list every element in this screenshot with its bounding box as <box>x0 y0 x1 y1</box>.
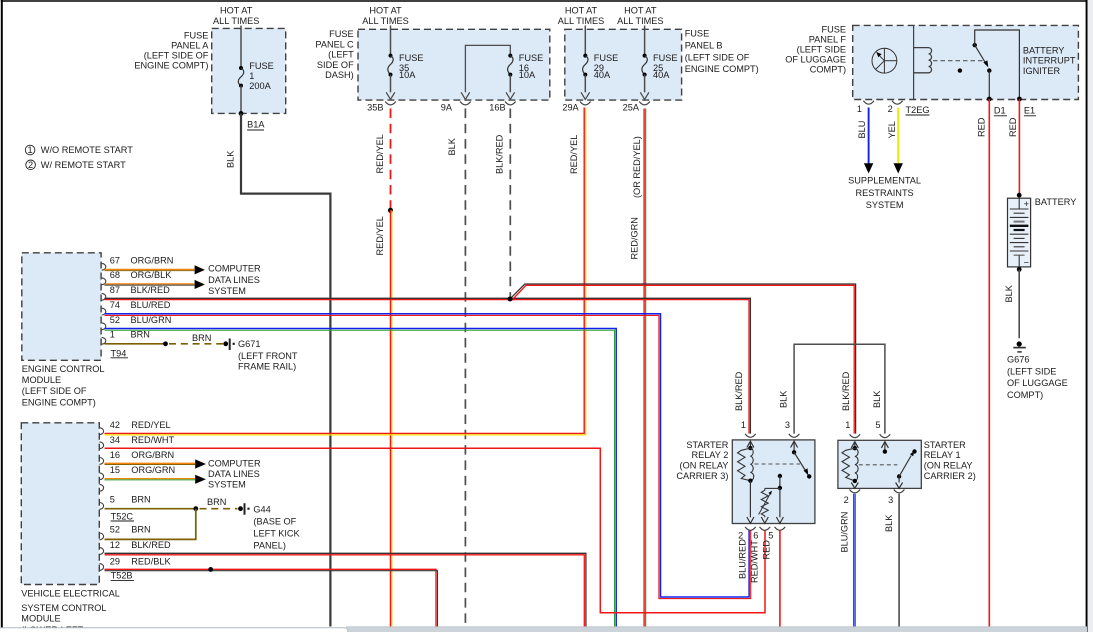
relay 2 bottom connectors <box>745 527 756 530</box>
svg-text:RED/BLK: RED/BLK <box>131 556 171 566</box>
contact dot <box>958 68 962 72</box>
svg-text:B1A: B1A <box>247 120 265 130</box>
svg-text:SYSTEM: SYSTEM <box>208 286 246 296</box>
svg-text:1: 1 <box>845 420 850 430</box>
node D1 dot <box>987 97 992 102</box>
svg-text:FUSE: FUSE <box>184 31 209 41</box>
svg-text:BLU/GRN: BLU/GRN <box>840 512 850 553</box>
svg-text:RED: RED <box>762 540 772 560</box>
svg-text:FUSE: FUSE <box>249 61 274 71</box>
svg-text:29A: 29A <box>562 103 579 113</box>
svg-text:BRN: BRN <box>207 497 226 507</box>
wire BLK from B1A <box>241 113 330 626</box>
junction dot 16B/87 <box>508 297 513 302</box>
fuse 1 200A <box>239 66 243 70</box>
node B1A dot <box>239 111 244 116</box>
svg-text:DATA LINES: DATA LINES <box>208 275 260 285</box>
VESCM pin arcs <box>99 428 103 571</box>
svg-text:2: 2 <box>28 160 33 170</box>
svg-text:HOT AT: HOT AT <box>369 6 402 16</box>
wire ORG/BRN pin 67 <box>105 268 195 270</box>
svg-text:BLK/RED: BLK/RED <box>841 371 851 411</box>
svg-text:BRN: BRN <box>192 333 211 343</box>
svg-text:RED: RED <box>977 117 987 137</box>
svg-text:+: + <box>1024 199 1029 209</box>
wire RED/GRN 25A <box>643 109 645 627</box>
svg-text:9A: 9A <box>441 103 453 113</box>
svg-text:BLK/RED: BLK/RED <box>734 371 744 411</box>
svg-text:IGNITER: IGNITER <box>1023 66 1061 76</box>
svg-text:(LEFT SIDE OF: (LEFT SIDE OF <box>22 386 87 396</box>
svg-text:OF LUGGAGE: OF LUGGAGE <box>1007 378 1068 388</box>
wire hot feed to fuse 29 <box>584 26 586 56</box>
svg-text:RED/GRN: RED/GRN <box>630 217 640 259</box>
svg-text:SYSTEM: SYSTEM <box>866 200 904 210</box>
svg-text:3: 3 <box>888 495 893 505</box>
relay 1 switch <box>897 474 901 478</box>
svg-text:(LEFT SIDE: (LEFT SIDE <box>1007 366 1056 376</box>
fuse panel C box <box>358 29 550 100</box>
svg-text:FUSE: FUSE <box>594 53 619 63</box>
svg-text:COMPT): COMPT) <box>1007 390 1043 400</box>
svg-text:1: 1 <box>249 71 254 81</box>
fuse panel A box <box>212 28 286 113</box>
wire BLU/GRN relay 1 pin 2 <box>853 494 855 627</box>
relay 2 coil resistor <box>738 448 751 481</box>
wire BRN pin 5 <box>105 508 196 510</box>
svg-text:PANEL F: PANEL F <box>809 35 847 45</box>
svg-text:G671: G671 <box>238 339 260 349</box>
svg-text:10A: 10A <box>519 70 536 80</box>
relay 1 dashed link <box>859 464 898 466</box>
svg-text:52: 52 <box>110 525 120 535</box>
wire BLU/RED pin 74 to relay 2 pin 2 <box>105 314 750 597</box>
fuse 29 40A <box>583 54 587 58</box>
relay 1 top connectors <box>850 434 861 437</box>
fuse 16 10A <box>508 54 512 58</box>
svg-text:T52C: T52C <box>111 511 134 521</box>
wire ORG/BLK pin 68 <box>105 283 195 285</box>
relay 1 pin 5 entry <box>881 442 888 448</box>
svg-text:FUSE: FUSE <box>399 53 424 63</box>
svg-text:MODULE: MODULE <box>21 614 60 624</box>
svg-text:COMPT): COMPT) <box>810 65 846 75</box>
svg-text:29: 29 <box>110 556 120 566</box>
svg-text:RED: RED <box>1008 117 1018 137</box>
svg-text:1: 1 <box>741 420 746 430</box>
wire RED from D1 <box>988 99 990 627</box>
svg-text:FUSE: FUSE <box>821 25 846 35</box>
igniter divider <box>913 25 915 99</box>
igniter switch <box>973 43 977 47</box>
relay 2 pin 5 branch <box>778 474 782 478</box>
svg-text:PANEL C: PANEL C <box>315 39 354 49</box>
svg-text:BLK: BLK <box>447 137 457 155</box>
svg-text:ENGINE COMPT): ENGINE COMPT) <box>685 64 759 74</box>
svg-text:2: 2 <box>844 495 849 505</box>
svg-text:RED/YEL: RED/YEL <box>375 216 385 255</box>
svg-text:COMPUTER: COMPUTER <box>208 458 261 468</box>
fuse panel F box <box>853 25 1079 99</box>
wire BLU to SRS <box>868 108 870 165</box>
svg-text:HOT AT: HOT AT <box>565 6 598 16</box>
svg-text:W/ REMOTE START: W/ REMOTE START <box>41 160 126 170</box>
svg-text:PANEL A: PANEL A <box>171 41 209 51</box>
wire hot feed into panel A <box>240 26 242 69</box>
svg-text:BLK/RED: BLK/RED <box>495 134 505 174</box>
connector 9A <box>460 102 471 105</box>
svg-text:ALL TIMES: ALL TIMES <box>362 16 408 26</box>
wire BRN pin 52 <box>105 509 196 540</box>
svg-text:(LEFT SIDE OF: (LEFT SIDE OF <box>144 51 209 61</box>
svg-text:15: 15 <box>110 465 120 475</box>
svg-text:68: 68 <box>110 270 120 280</box>
legend note 2 circle <box>26 160 36 170</box>
ground G671 <box>229 339 231 351</box>
svg-text:BLU/GRN: BLU/GRN <box>131 315 172 325</box>
svg-text:E1: E1 <box>1024 106 1035 116</box>
white overlay panel <box>0 628 348 632</box>
svg-text:CARRIER 2): CARRIER 2) <box>924 471 976 481</box>
svg-text:COMPUTER: COMPUTER <box>208 264 261 274</box>
svg-text:12: 12 <box>110 540 120 550</box>
svg-text:RED/WHT: RED/WHT <box>750 540 760 583</box>
junction dot on pin 29 wire <box>208 567 213 572</box>
svg-text:BLU/RED: BLU/RED <box>738 539 748 579</box>
fuse 25 40A <box>643 54 647 58</box>
wire BLK relay 1 pin 3 <box>898 494 900 627</box>
connector pin 2 <box>892 101 903 104</box>
svg-text:FUSE: FUSE <box>653 53 678 63</box>
svg-text:HOT AT: HOT AT <box>624 6 657 16</box>
svg-text:87: 87 <box>110 285 120 295</box>
svg-text:T52B: T52B <box>111 571 133 581</box>
svg-text:25A: 25A <box>623 103 640 113</box>
svg-text:FUSE: FUSE <box>519 53 544 63</box>
wire ORG/GRN pin 15 <box>105 478 196 480</box>
battery plates <box>1010 208 1029 210</box>
wire hot feed to fuse 25 <box>644 26 646 56</box>
svg-text:T2EG: T2EG <box>906 105 930 115</box>
svg-text:(ON RELAY: (ON RELAY <box>680 461 729 471</box>
svg-text:BLK/RED: BLK/RED <box>131 285 171 295</box>
svg-text:(BASE OF: (BASE OF <box>253 516 296 526</box>
svg-text:BLK: BLK <box>884 514 894 532</box>
svg-text:2: 2 <box>738 531 743 541</box>
page border right <box>1086 0 1088 632</box>
starter relay 1 box <box>838 440 921 488</box>
svg-text:RED/YEL: RED/YEL <box>569 135 579 174</box>
svg-text:(LEFT: (LEFT <box>328 50 354 60</box>
svg-text:ALL TIMES: ALL TIMES <box>617 16 663 26</box>
wire RED relay 2 pin 5 <box>779 530 781 626</box>
svg-text:BLU/RED: BLU/RED <box>131 300 171 310</box>
battery top dot <box>1017 193 1022 198</box>
relay 2 top connectors <box>745 434 756 437</box>
svg-text:6: 6 <box>753 531 758 541</box>
svg-text:DATA LINES: DATA LINES <box>208 469 260 479</box>
svg-text:5: 5 <box>768 531 773 541</box>
svg-text:D1: D1 <box>994 106 1006 116</box>
wire hot feed into panel C <box>390 26 392 56</box>
relay 2 coil <box>750 448 753 481</box>
svg-text:PANEL): PANEL) <box>253 540 286 550</box>
battery box <box>1008 198 1031 267</box>
wire BLK/RED pin 12 <box>105 555 585 627</box>
wire BLK/RED 16B dashed <box>509 109 511 297</box>
svg-text:BRN: BRN <box>131 495 150 505</box>
ECM pin arcs <box>102 263 106 344</box>
svg-text:74: 74 <box>110 300 120 310</box>
svg-text:YEL: YEL <box>887 121 897 138</box>
svg-text:RELAY 1: RELAY 1 <box>924 450 961 460</box>
relay 1 coil <box>855 448 858 481</box>
svg-text:OF LUGGAGE: OF LUGGAGE <box>785 54 846 64</box>
ground G676 <box>1017 341 1022 346</box>
svg-text:G44: G44 <box>253 504 270 514</box>
svg-text:RED/WHT: RED/WHT <box>131 435 174 445</box>
wire BLK/RED branch to relay 1 pin 1 <box>510 284 856 434</box>
svg-text:RED/YEL: RED/YEL <box>131 420 170 430</box>
svg-text:SUPPLEMENTAL: SUPPLEMENTAL <box>848 175 921 185</box>
relay 2 pin 1 entry <box>747 441 754 447</box>
svg-text:BLK: BLK <box>1004 284 1014 302</box>
connector 35B <box>385 102 396 105</box>
svg-text:SYSTEM: SYSTEM <box>208 480 246 490</box>
wire BLU/GRN pin 52 <box>105 329 617 627</box>
svg-text:67: 67 <box>110 256 120 266</box>
svg-text:T94: T94 <box>111 348 127 358</box>
svg-text:(ON RELAY: (ON RELAY <box>924 461 973 471</box>
svg-text:LEFT KICK: LEFT KICK <box>253 528 300 538</box>
connector pin 1 <box>863 101 874 104</box>
battery bottom dot <box>1017 267 1022 272</box>
wire RED/YEL 35B solid <box>390 210 392 626</box>
svg-text:BLK: BLK <box>226 150 236 168</box>
svg-text:3: 3 <box>785 420 790 430</box>
svg-text:BATTERY: BATTERY <box>1023 45 1065 55</box>
svg-text:ALL TIMES: ALL TIMES <box>213 16 259 26</box>
svg-text:CARRIER 3): CARRIER 3) <box>676 471 728 481</box>
fuse 35 10A <box>389 54 393 58</box>
svg-text:BLK: BLK <box>779 390 789 408</box>
svg-text:ENGINE COMPT): ENGINE COMPT) <box>134 61 208 71</box>
wire RED/BLK pin 29 <box>105 569 437 626</box>
svg-text:−: − <box>1024 258 1029 268</box>
svg-text:SIDE OF: SIDE OF <box>317 60 354 70</box>
svg-text:RELAY 2: RELAY 2 <box>691 450 728 460</box>
svg-text:G676: G676 <box>1007 355 1029 365</box>
svg-text:34: 34 <box>110 435 120 445</box>
svg-text:ORG/BRN: ORG/BRN <box>131 450 174 460</box>
svg-text:40A: 40A <box>594 70 611 80</box>
svg-text:FUSE: FUSE <box>329 29 354 39</box>
svg-text:(LEFT FRONT: (LEFT FRONT <box>238 351 298 361</box>
svg-text:FUSE: FUSE <box>685 29 710 39</box>
svg-text:5: 5 <box>110 495 115 505</box>
svg-text:BLK/RED: BLK/RED <box>131 540 171 550</box>
svg-text:BLK: BLK <box>872 390 882 408</box>
svg-text:MODULE: MODULE <box>22 375 61 385</box>
wire BLK/RED pin 87 to relay 2 pin 1 <box>105 298 751 433</box>
relay 1 coil resistor <box>842 448 855 481</box>
connector 16B <box>505 102 516 105</box>
svg-text:35B: 35B <box>367 103 383 113</box>
svg-text:DASH): DASH) <box>325 70 354 80</box>
svg-text:2: 2 <box>888 104 893 114</box>
relay 1 pin 1 entry <box>851 442 858 448</box>
svg-text:52: 52 <box>110 315 120 325</box>
svg-text:ALL TIMES: ALL TIMES <box>558 16 604 26</box>
relay 2 varistor <box>765 487 780 489</box>
svg-text:HOT AT: HOT AT <box>220 6 253 16</box>
igniter squib symbol <box>872 48 897 73</box>
svg-text:16: 16 <box>110 450 120 460</box>
svg-text:BATTERY: BATTERY <box>1035 197 1077 207</box>
vehicle electrical system control module box <box>21 423 99 585</box>
connector 25A <box>639 102 650 105</box>
wire BLK bridge relay2 pin3 to relay1 pin5 <box>794 344 885 433</box>
relay 1 bottom connectors <box>850 490 861 493</box>
wire RED/YEL 29A to VESCM 42 <box>105 108 585 434</box>
svg-text:STARTER: STARTER <box>924 440 966 450</box>
svg-text:200A: 200A <box>249 81 271 91</box>
right gray strip <box>1088 0 1093 632</box>
wire RED from E1 to battery <box>1018 99 1020 195</box>
svg-text:ENGINE CONTROL: ENGINE CONTROL <box>22 364 105 374</box>
svg-text:ORG/BRN: ORG/BRN <box>131 256 174 266</box>
svg-text:BRN: BRN <box>131 330 150 340</box>
wire BRN pin 1 <box>105 343 166 345</box>
wire to E1 <box>975 30 1020 99</box>
svg-text:16B: 16B <box>489 103 505 113</box>
scrollbar track <box>346 627 1087 632</box>
wire RED/WHT pin 34 to relay 2 pin 6 <box>105 448 766 613</box>
node E1 dot <box>1017 97 1022 102</box>
svg-text:10A: 10A <box>399 70 416 80</box>
wire RED/YEL 35B dashed <box>390 109 392 209</box>
svg-text:RED/YEL: RED/YEL <box>375 134 385 173</box>
fuse panel B box <box>565 29 682 100</box>
page border top <box>1 0 1087 2</box>
svg-text:VEHICLE ELECTRICAL: VEHICLE ELECTRICAL <box>21 588 120 598</box>
legend note 1 circle <box>25 145 35 155</box>
starter relay 2 box <box>732 440 815 524</box>
svg-text:42: 42 <box>110 420 120 430</box>
igniter coil <box>914 48 932 73</box>
svg-text:ORG/BLK: ORG/BLK <box>131 270 173 280</box>
connector 29A <box>580 102 591 105</box>
svg-text:SYSTEM CONTROL: SYSTEM CONTROL <box>21 603 106 613</box>
svg-text:INTERRUPT: INTERRUPT <box>1023 56 1076 66</box>
svg-text:1: 1 <box>28 145 33 155</box>
svg-text:ORG/GRN: ORG/GRN <box>131 465 175 475</box>
svg-text:(LEFT SIDE: (LEFT SIDE <box>797 45 846 55</box>
svg-text:PANEL B: PANEL B <box>685 41 723 51</box>
svg-text:ENGINE COMPT): ENGINE COMPT) <box>22 397 96 407</box>
wire ORG/BRN pin 16 <box>105 462 196 464</box>
wire BLK from battery <box>1018 269 1020 338</box>
relay 2 dashed link <box>755 463 801 465</box>
engine control module box <box>22 253 101 360</box>
ground G44 <box>244 503 246 515</box>
svg-text:W/O REMOTE START: W/O REMOTE START <box>41 145 133 155</box>
page border left <box>1 0 3 632</box>
wire BLK 9A dashed <box>464 109 466 627</box>
svg-text:BRN: BRN <box>131 525 150 535</box>
svg-text:(LEFT SIDE OF: (LEFT SIDE OF <box>685 52 750 62</box>
relay actuation dashed link <box>933 60 984 62</box>
svg-text:5: 5 <box>875 420 880 430</box>
svg-text:FRAME RAIL): FRAME RAIL) <box>238 362 296 372</box>
relay 2 pin 3 switch <box>791 441 798 447</box>
svg-text:STARTER: STARTER <box>686 440 728 450</box>
svg-text:1: 1 <box>857 104 862 114</box>
svg-text:BLU: BLU <box>857 121 867 139</box>
wire bridge to fuse 16 <box>465 45 510 92</box>
junction dot 35B <box>388 208 393 213</box>
svg-text:(OR RED/YEL): (OR RED/YEL) <box>632 136 642 198</box>
wire YEL to SRS <box>897 108 899 165</box>
svg-text:40A: 40A <box>653 70 670 80</box>
svg-text:1: 1 <box>110 330 115 340</box>
svg-text:RESTRAINTS: RESTRAINTS <box>855 188 913 198</box>
